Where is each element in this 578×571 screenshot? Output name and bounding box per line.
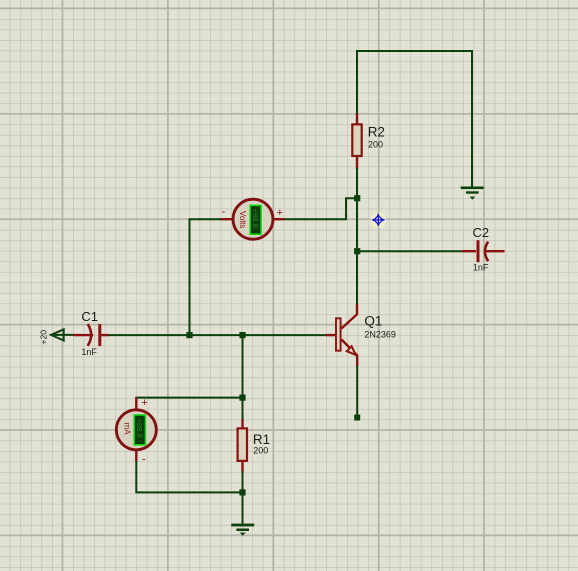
svg-text:200: 200: [368, 139, 383, 149]
voltmeter VM1: [220, 199, 284, 239]
terminal IN (+20): [51, 329, 74, 340]
svg-text:+88.8: +88.8: [251, 209, 260, 228]
wire voltmeter to base rail: [190, 219, 222, 336]
transistor Q1: [326, 304, 357, 366]
svg-text:C2: C2: [473, 225, 490, 240]
wire node to C2: [356, 250, 462, 252]
value 1nF (C2): [473, 263, 489, 273]
label - (AM1 bottom pin): [142, 454, 146, 466]
ground: [231, 524, 254, 536]
label C2: [473, 225, 490, 240]
ground: [461, 187, 484, 200]
wire VCC rail horizontal: [356, 50, 472, 52]
label R1: [253, 432, 270, 447]
label Q1: [364, 314, 382, 329]
wire emitter: [356, 366, 358, 418]
resistor R2: [352, 114, 361, 170]
svg-text:mA: mA: [123, 423, 132, 436]
label + (VM1 right pin): [277, 207, 283, 219]
svg-text:+88.8: +88.8: [135, 418, 144, 437]
value 1nF (C1): [81, 347, 97, 357]
label + (AM1 top pin): [141, 397, 147, 409]
svg-text:C1: C1: [81, 309, 98, 324]
value 2N2369 (Q1): [364, 330, 396, 340]
value 200 (R1): [253, 445, 268, 455]
label +20: [38, 330, 48, 345]
label R2: [368, 125, 385, 140]
wire ammeter to R1 top: [135, 397, 242, 399]
svg-text:200: 200: [253, 445, 268, 455]
capacitor C2: [462, 240, 505, 262]
svg-text:-: -: [142, 454, 146, 466]
svg-text:+: +: [277, 207, 283, 219]
svg-text:Q1: Q1: [364, 314, 382, 329]
wire R1 to ground: [242, 471, 244, 524]
svg-text:2N2369: 2N2369: [364, 330, 396, 340]
svg-text:+: +: [141, 397, 147, 409]
wire R2 top: [356, 50, 358, 115]
junction J5: [239, 395, 245, 401]
wire base rail: [108, 334, 326, 336]
svg-text:-: -: [222, 206, 226, 218]
terminal node (emitter end): [354, 415, 360, 421]
wire ammeter to ground rail: [136, 461, 242, 492]
label C1: [81, 309, 98, 324]
label - (VM1 left pin): [222, 206, 226, 218]
junction J4: [239, 332, 245, 338]
svg-text:R2: R2: [368, 125, 385, 140]
origin marker (blue crosshair): [371, 213, 386, 228]
junction J3: [186, 332, 192, 338]
capacitor C1: [73, 324, 109, 346]
value 200 (R2): [368, 139, 383, 149]
wire base rail to R1: [242, 334, 244, 420]
wire R2 bottom to collector: [356, 168, 358, 305]
svg-text:1nF: 1nF: [473, 263, 489, 273]
junction J2: [354, 248, 360, 254]
ammeter AM1: [116, 398, 156, 462]
svg-text:1nF: 1nF: [81, 347, 97, 357]
svg-text:+20: +20: [38, 330, 48, 345]
svg-text:Volts: Volts: [238, 211, 247, 228]
resistor R1: [238, 419, 247, 472]
junction J6: [239, 489, 245, 495]
wire voltmeter to node: [284, 198, 356, 219]
wire VCC rail vertical: [471, 50, 473, 187]
junction J1: [354, 195, 360, 201]
